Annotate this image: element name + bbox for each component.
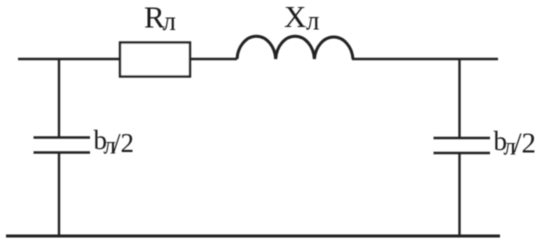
capacitor C2 top plate xyxy=(434,137,491,140)
svg-text:л: л xyxy=(306,6,319,36)
wire left vertical upper xyxy=(58,59,60,137)
wire left vertical lower xyxy=(58,153,60,237)
svg-text:л: л xyxy=(163,6,176,36)
resistor R1 xyxy=(120,43,190,77)
wire top-left segment xyxy=(18,58,120,60)
svg-text:X: X xyxy=(284,0,306,34)
inductor L1 xyxy=(237,36,353,59)
wire right vertical upper xyxy=(458,59,460,138)
wire bottom xyxy=(6,235,500,238)
capacitor C1 bottom plate xyxy=(34,151,91,154)
capacitor C2 bottom plate xyxy=(434,152,491,155)
wire inductor-to-right xyxy=(352,58,498,60)
capacitor C1 top plate xyxy=(34,136,91,139)
wire resistor-to-inductor xyxy=(190,58,237,60)
svg-text:/2: /2 xyxy=(514,128,537,160)
svg-text:/2: /2 xyxy=(113,128,134,158)
wire right vertical lower xyxy=(458,153,460,236)
